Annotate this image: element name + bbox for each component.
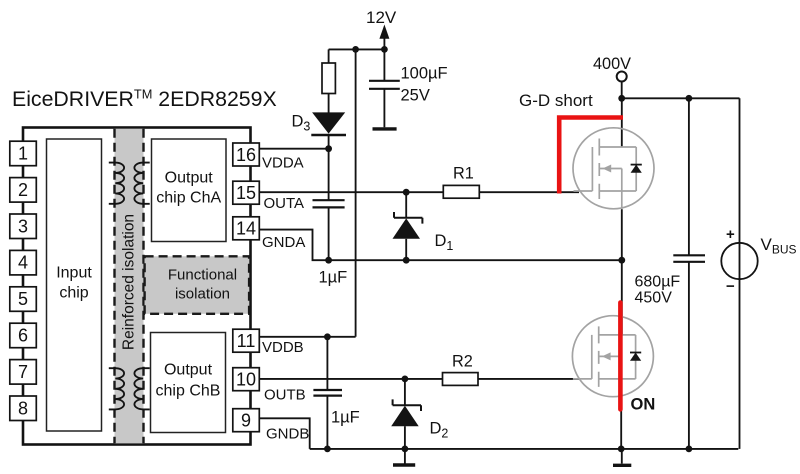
svg-text:chip ChB: chip ChB xyxy=(156,383,221,400)
svg-text:OUTA: OUTA xyxy=(264,195,305,212)
svg-text:4: 4 xyxy=(18,253,28,273)
svg-text:3: 3 xyxy=(18,216,28,236)
svg-text:450V: 450V xyxy=(635,290,673,307)
pin 6 xyxy=(10,323,37,348)
wire switch node vertical xyxy=(621,209,623,334)
pin 16 xyxy=(233,143,259,166)
svg-text:chip ChA: chip ChA xyxy=(156,190,221,207)
capacitor 680uF plates xyxy=(673,255,705,261)
svg-text:VDDB: VDDB xyxy=(262,339,304,356)
pin 4 xyxy=(10,250,37,275)
transformer T2 bottom right winding xyxy=(134,368,149,409)
svg-text:Output: Output xyxy=(165,170,214,187)
resistor R2 xyxy=(443,373,479,386)
node 400V xyxy=(618,95,625,102)
svg-text:ON: ON xyxy=(631,396,656,414)
node OUTA D1 xyxy=(403,189,410,196)
node VDDA xyxy=(325,145,332,152)
node 12V rail tap xyxy=(352,46,359,53)
node GNDA capA xyxy=(325,257,332,264)
capacitor 680uF lead bottom xyxy=(688,262,690,449)
pin 10 xyxy=(233,368,259,391)
svg-text:Reinforced isolation: Reinforced isolation xyxy=(121,214,138,350)
svg-text:11: 11 xyxy=(237,331,256,351)
reinforced isolation strip xyxy=(115,129,144,444)
ground bar under 100uF xyxy=(373,127,397,130)
svg-text:2: 2 xyxy=(18,180,28,200)
pin 11 xyxy=(233,329,259,352)
svg-text:400V: 400V xyxy=(593,55,631,73)
svg-text:7: 7 xyxy=(18,362,28,382)
transformer T1 top right winding xyxy=(134,163,149,204)
svg-text:6: 6 xyxy=(18,326,28,346)
svg-text:16: 16 xyxy=(236,145,256,165)
pin 9 xyxy=(233,409,259,432)
diode D3 xyxy=(312,112,345,133)
node OUTB D2 xyxy=(402,376,409,383)
svg-text:1µF: 1µF xyxy=(331,409,360,427)
wire GNDA pin14 to switch node rail xyxy=(259,230,622,261)
capacitor 1uF A plates xyxy=(313,200,345,207)
wire resistor to D3 xyxy=(328,94,330,113)
wire 12V top node horizontal xyxy=(329,48,385,50)
wire VDDB pin11 to 12V rail xyxy=(259,336,355,338)
svg-text:14: 14 xyxy=(236,219,256,239)
wire top rail 400V to VBUS xyxy=(622,97,740,99)
resistor R1 xyxy=(443,185,479,198)
svg-text:VDDA: VDDA xyxy=(262,155,304,172)
wire M1 drain xyxy=(621,98,623,147)
pin 15 xyxy=(233,181,259,204)
400V terminal xyxy=(617,72,627,82)
node bottom rail 680uF xyxy=(686,446,693,453)
MOSFET M1 xyxy=(573,128,654,210)
pin 1 xyxy=(10,141,37,166)
svg-text:Output: Output xyxy=(164,362,213,379)
node GNDB capB xyxy=(324,446,331,453)
wire 12V rail vertical xyxy=(355,49,357,336)
svg-text:Input: Input xyxy=(56,265,92,282)
reinforced isolation left dashed border xyxy=(113,129,115,444)
pin 2 xyxy=(10,178,37,203)
svg-text:8: 8 xyxy=(18,398,28,418)
svg-text:isolation: isolation xyxy=(175,286,230,303)
svg-text:12V: 12V xyxy=(366,8,397,27)
svg-text:100µF: 100µF xyxy=(401,65,448,83)
svg-text:1: 1 xyxy=(18,144,28,164)
red G-D short wire xyxy=(559,118,623,194)
capacitor C100u lead top xyxy=(383,49,385,80)
MOSFET M2 xyxy=(572,316,653,398)
svg-text:GNDB: GNDB xyxy=(266,425,309,442)
transformer T1 top left winding xyxy=(109,163,124,204)
svg-text:−: − xyxy=(726,278,735,295)
wire M2 source to bottom rail xyxy=(620,397,622,449)
capacitor C1uF B vertical xyxy=(326,337,328,449)
red ON wire overlay xyxy=(618,303,623,410)
pin 3 xyxy=(10,214,37,239)
svg-text:chip: chip xyxy=(59,285,88,302)
pin 5 xyxy=(10,287,37,312)
pin 7 xyxy=(10,360,37,385)
svg-text:R1: R1 xyxy=(453,165,474,183)
capacitor C100u lead bottom xyxy=(383,89,385,128)
output chip ChB box xyxy=(151,333,226,433)
reinforced isolation right dashed border xyxy=(142,129,144,444)
node 680uF top xyxy=(686,95,693,102)
svg-text:9: 9 xyxy=(241,411,251,431)
svg-text:25V: 25V xyxy=(401,87,430,105)
node rail D2 xyxy=(402,446,409,453)
transformer T2 bottom left winding xyxy=(109,368,124,409)
svg-text:1µF: 1µF xyxy=(319,269,348,287)
wire VDDA pin16 to D3 node xyxy=(259,148,328,150)
VBUS source circle xyxy=(721,243,757,279)
svg-text:680µF: 680µF xyxy=(635,274,681,291)
input chip box xyxy=(47,139,102,431)
svg-text:R2: R2 xyxy=(452,353,473,371)
node bottom rail M2 xyxy=(618,446,625,453)
wire OUTA pin15 to gate M1 xyxy=(259,191,579,193)
svg-text:15: 15 xyxy=(236,183,256,203)
zener diode D2 xyxy=(404,379,406,406)
capacitor C1uF A vertical xyxy=(328,149,330,261)
wire OUTB pin10 to gate M2 xyxy=(259,378,579,380)
svg-text:+: + xyxy=(726,226,735,243)
capacitor 1uF B plates xyxy=(313,390,342,396)
node VDDB capB xyxy=(324,333,331,340)
node switch GNDA xyxy=(618,257,625,264)
svg-text:G-D short: G-D short xyxy=(519,91,593,110)
svg-text:5: 5 xyxy=(18,289,28,309)
zener diode D1 xyxy=(405,192,407,218)
wire GNDB pin9 to bottom rail xyxy=(259,418,309,449)
node GNDA D1 xyxy=(403,257,410,264)
svg-text:10: 10 xyxy=(236,370,256,390)
svg-text:OUTB: OUTB xyxy=(264,387,306,404)
capacitor 100uF plates xyxy=(369,81,400,89)
IC outline U1 xyxy=(23,128,251,445)
output chip ChA box xyxy=(152,139,227,242)
pin 8 xyxy=(10,396,37,421)
functional isolation box xyxy=(145,256,250,314)
pin 14 xyxy=(233,217,259,240)
svg-text:GNDA: GNDA xyxy=(262,234,305,251)
node 12V cap tap xyxy=(381,46,388,53)
wire bottom rail xyxy=(310,448,739,450)
ground symbol under switch leg xyxy=(621,449,623,464)
svg-text:Functional: Functional xyxy=(168,267,237,284)
capacitor 680uF lead top xyxy=(688,98,690,255)
VBUS source line xyxy=(739,98,741,449)
resistor RVDDA vertical body xyxy=(328,49,330,63)
12V supply arrow xyxy=(383,37,385,50)
ground symbol under D2 xyxy=(404,449,406,464)
